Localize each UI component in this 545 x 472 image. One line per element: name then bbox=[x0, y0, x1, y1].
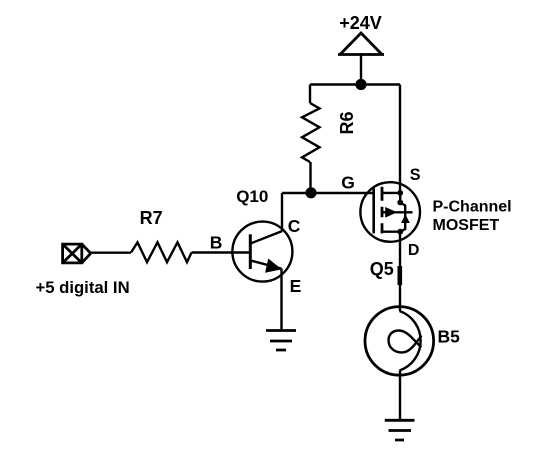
wire R6 to node G bbox=[309, 162, 311, 193]
wire power stem bbox=[360, 53, 362, 84]
wire S drop bbox=[399, 85, 401, 194]
label D bbox=[408, 242, 420, 259]
label R6 bbox=[337, 111, 357, 134]
svg-text:MOSFET: MOSFET bbox=[433, 217, 500, 234]
power symbol +24V triangle bbox=[338, 33, 384, 55]
wire base bbox=[91, 251, 250, 254]
ground Q10 emitter bbox=[266, 331, 296, 351]
wire gate rail bbox=[282, 192, 375, 194]
ground lamp bbox=[385, 420, 415, 440]
svg-text:+24V: +24V bbox=[339, 13, 382, 33]
lamp B5 bbox=[365, 307, 434, 376]
svg-text:G: G bbox=[341, 173, 355, 193]
label B bbox=[210, 233, 223, 253]
label E bbox=[290, 276, 302, 296]
resistor R7 bbox=[131, 242, 192, 262]
wire rail to R6 bbox=[309, 85, 311, 104]
label C bbox=[288, 216, 301, 236]
label R7 bbox=[140, 208, 163, 228]
label B5 bbox=[438, 327, 461, 347]
wire drain to lamp bbox=[399, 232, 402, 311]
wire lamp to ground bbox=[399, 371, 401, 420]
junction dot top rail bbox=[355, 79, 366, 90]
wire top rail bbox=[310, 83, 400, 85]
label Q10 bbox=[236, 187, 268, 206]
label Q5 bbox=[370, 259, 394, 279]
resistor R6 bbox=[302, 103, 320, 162]
svg-text:B5: B5 bbox=[438, 327, 461, 347]
svg-text:R6: R6 bbox=[337, 111, 357, 134]
svg-text:Q5: Q5 bbox=[370, 259, 394, 279]
svg-text:E: E bbox=[290, 276, 302, 296]
transistor Q10 bbox=[232, 222, 292, 282]
svg-text:Q10: Q10 bbox=[236, 187, 268, 206]
svg-text:C: C bbox=[288, 216, 301, 236]
svg-text:B: B bbox=[210, 233, 223, 253]
label +24V bbox=[339, 13, 382, 33]
wire collector riser bbox=[281, 193, 283, 231]
svg-text:P-Channel: P-Channel bbox=[433, 199, 512, 216]
label +5 digital IN bbox=[36, 278, 130, 297]
svg-text:+5 digital IN: +5 digital IN bbox=[36, 278, 130, 297]
svg-text:R7: R7 bbox=[140, 208, 163, 228]
svg-text:S: S bbox=[410, 166, 421, 184]
svg-text:D: D bbox=[408, 242, 420, 259]
node G junction dot bbox=[305, 187, 316, 198]
wire emitter drop bbox=[280, 269, 282, 330]
label S bbox=[410, 166, 421, 184]
mosfet Q5 symbol bbox=[360, 182, 420, 242]
label P-Channel MOSFET bbox=[433, 199, 512, 235]
label G bbox=[341, 173, 355, 193]
input terminal +5 digital IN bbox=[63, 244, 91, 263]
